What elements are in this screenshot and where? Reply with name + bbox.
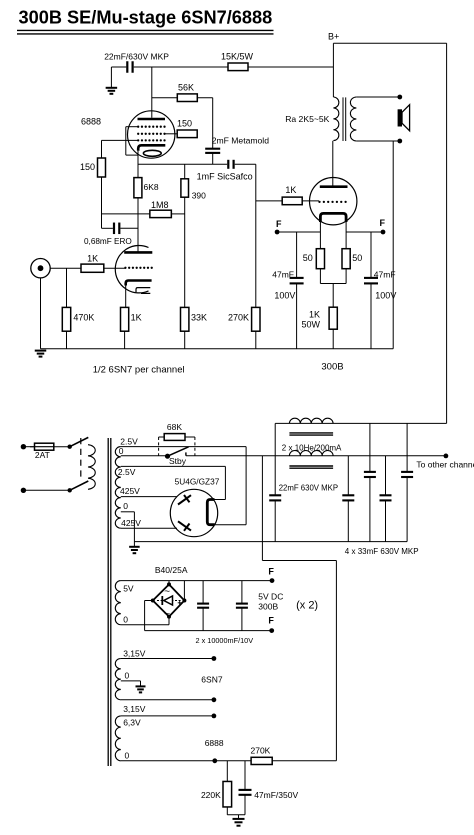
tube 300B envelope (310, 178, 357, 225)
winding 5V (115, 581, 121, 625)
300B plate lead (332, 141, 334, 187)
svg-text:1K: 1K (131, 313, 142, 323)
svg-text:Ra 2K5~5K: Ra 2K5~5K (285, 114, 329, 124)
svg-text:1K: 1K (87, 254, 98, 264)
input jack (31, 259, 50, 278)
OPT primary lead (332, 67, 334, 97)
capacitor 10000mF #1 (202, 581, 204, 604)
svg-text:0: 0 (125, 751, 130, 761)
svg-text:~: ~ (164, 586, 170, 597)
OPT core (342, 97, 344, 141)
capacitor 0,68mF ERO (102, 227, 113, 229)
filament resistor join (319, 269, 321, 284)
svg-text:2.5V: 2.5V (118, 467, 136, 477)
6888 grid g2 dots (137, 133, 139, 135)
main DC line (186, 455, 446, 457)
wire 390 to 33K (184, 197, 186, 307)
ground symbol (rail) (35, 350, 47, 352)
bridge diode glyph (157, 600, 181, 602)
svg-text:470K: 470K (73, 313, 94, 323)
bridge plus mark (178, 602, 182, 604)
svg-text:6888: 6888 (205, 738, 224, 748)
capacitor 10000mF #2 (241, 581, 243, 604)
6888 heater (143, 150, 161, 156)
5U4G filament bottom lead (215, 524, 247, 526)
svg-text:B40/25A: B40/25A (155, 565, 188, 575)
B+ top wire (333, 42, 446, 44)
capacitor 22mF MKP (psu) (274, 456, 276, 496)
resistor 150 (grid) (98, 158, 106, 177)
svg-text:100V: 100V (274, 290, 295, 300)
mains terminal bottom (21, 488, 26, 493)
svg-text:150: 150 (80, 162, 95, 172)
svg-text:47mF: 47mF (272, 270, 294, 280)
svg-text:0: 0 (125, 671, 130, 681)
svg-text:300B SE/Mu-stage 6SN7/6888: 300B SE/Mu-stage 6SN7/6888 (19, 8, 273, 28)
svg-text:220K: 220K (201, 790, 221, 800)
resistor 6K8 (134, 178, 142, 198)
resistor 1K (input) (81, 264, 104, 272)
6888 cathode wire (137, 151, 139, 178)
resistor 1K (300B grid) (282, 197, 302, 205)
title double underline (17, 29, 274, 31)
svg-text:1K: 1K (309, 310, 320, 320)
capacitor 2mF Metamold (205, 148, 220, 150)
capacitor 22mF/630V MKP (111, 66, 126, 68)
wire g1 to 1M8 (102, 213, 150, 215)
resistor 33K (181, 307, 189, 331)
svg-text:2.5V: 2.5V (120, 436, 138, 446)
mains terminal top (21, 444, 26, 449)
capacitor 47mF/350V (244, 761, 246, 790)
svg-text:2AT: 2AT (35, 450, 50, 460)
6888 g2 lead (165, 133, 178, 135)
tube 5U4G envelope (170, 489, 217, 536)
svg-text:56K: 56K (178, 83, 194, 93)
svg-text:2 x 10He/200mA: 2 x 10He/200mA (282, 444, 342, 453)
choke output line (275, 422, 446, 424)
output line wire (138, 163, 227, 165)
node plate junction wire (151, 67, 153, 118)
5V rail (121, 580, 272, 582)
svg-text:3,15V: 3,15V (123, 649, 146, 659)
svg-text:F: F (268, 615, 274, 625)
B+ riser (332, 43, 334, 67)
6888 plate (138, 118, 166, 121)
screen node wire (212, 98, 214, 149)
6SN7 cathode (126, 281, 152, 286)
capacitor 33mF #2 (upper) (369, 423, 371, 472)
5U4G filament (207, 500, 214, 525)
winding 6.3V (115, 716, 120, 761)
wire B+ top line (134, 66, 334, 68)
svg-text:1mF SicSafco: 1mF SicSafco (197, 171, 253, 181)
6888 g3-cathode tie (126, 126, 138, 128)
wire 1K to grid (104, 267, 126, 269)
resistor 1M8 (150, 210, 172, 217)
5U4G anode bottom (178, 521, 191, 530)
resistor 56K (152, 97, 213, 99)
svg-text:15K/5W: 15K/5W (221, 51, 254, 61)
6SN7 plate (124, 251, 152, 254)
svg-text:300B: 300B (258, 601, 278, 611)
6888 cathode (138, 145, 165, 151)
svg-text:0: 0 (123, 615, 128, 625)
svg-text:1/2 6SN7 per channel: 1/2 6SN7 per channel (93, 365, 185, 376)
6SN7 plate lead (137, 228, 139, 252)
ground symbol (bias) (238, 815, 240, 819)
svg-text:F: F (268, 567, 274, 577)
bridge bottom lead (168, 617, 170, 625)
svg-text:F: F (276, 219, 282, 229)
5V DC bottom rail (145, 630, 272, 632)
svg-text:22mF 630V MKP: 22mF 630V MKP (279, 484, 338, 493)
svg-text:0: 0 (123, 501, 128, 511)
resistor 50 (left) (316, 249, 324, 269)
svg-text:6888: 6888 (81, 117, 101, 127)
svg-text:Stby: Stby (169, 456, 187, 466)
transformer core (107, 438, 109, 766)
svg-text:5V DC: 5V DC (258, 591, 283, 601)
resistor 390 (184, 164, 186, 179)
svg-text:22mF/630V MKP: 22mF/630V MKP (104, 51, 169, 61)
resistor 470K (66, 268, 68, 307)
OPT secondary bottom lead (356, 140, 399, 142)
wire 1K to grid 300B (302, 200, 319, 202)
capacitor 47mF 100V left (296, 232, 298, 278)
bridge right lead (183, 581, 185, 601)
fuse 2AT (30, 446, 70, 448)
svg-text:425V: 425V (120, 486, 140, 496)
capacitor 33mF #4 (upper) (406, 423, 408, 472)
right rail (446, 43, 448, 423)
ground rail (41, 348, 394, 350)
svg-text:4 x 33mF 630V MKP: 4 x 33mF 630V MKP (345, 547, 419, 556)
wire 6K8 to 6SN7 plate (137, 198, 139, 252)
svg-text:150: 150 (177, 119, 192, 129)
choke 1 (289, 418, 333, 423)
svg-text:270K: 270K (251, 746, 271, 756)
resistor 270K (255, 164, 257, 307)
svg-text:3,15V: 3,15V (123, 704, 146, 714)
bias network join (227, 814, 245, 816)
svg-text:300B: 300B (321, 361, 343, 372)
6888 grid g3 dots (137, 126, 139, 128)
svg-text:47mF/350V: 47mF/350V (254, 790, 298, 800)
ground (22mF cap) (110, 67, 112, 87)
wire to 300B grid (256, 200, 282, 202)
5U4G filament top lead (215, 499, 226, 501)
300B filament (320, 213, 346, 222)
g1 node wire (101, 177, 103, 228)
resistor 1K (cathode) (125, 286, 127, 308)
svg-text:6K8: 6K8 (144, 182, 159, 192)
capacitor 1mF SicSafco (227, 160, 229, 169)
svg-text:2 x 10000mF/10V: 2 x 10000mF/10V (196, 636, 254, 645)
svg-text:0,68mF ERO: 0,68mF ERO (84, 237, 132, 246)
jack ground wire (40, 278, 42, 349)
psu ground line (134, 541, 407, 543)
6888 g1 lead (102, 139, 138, 141)
input wire (50, 267, 81, 269)
svg-text:0: 0 (119, 446, 124, 456)
OPT secondary top lead (356, 96, 399, 98)
capacitor 33mF #3 (385, 456, 387, 496)
g1 wire down (101, 140, 103, 158)
tube 6SN7 envelope (half) (115, 246, 148, 293)
6SN7 heater mark (136, 288, 150, 294)
svg-text:50: 50 (352, 253, 362, 263)
switch pole bottom (68, 488, 72, 492)
choke 1 input wire (274, 423, 276, 455)
capacitor 47mF 100V right (370, 232, 372, 278)
resistor 150 (screen) (177, 130, 197, 138)
winding 2.5V-0-2.5V and 425-0-425 (115, 447, 121, 529)
winding 3.15V heaters (115, 659, 121, 700)
svg-text:To other channel: To other channel (416, 460, 474, 470)
svg-text:33K: 33K (191, 313, 207, 323)
transformer OPT primary (333, 97, 338, 141)
resistor 220K (226, 761, 228, 782)
svg-text:B+: B+ (328, 32, 339, 42)
svg-text:50W: 50W (301, 320, 320, 330)
6888 grid g1 dots (137, 139, 139, 141)
svg-text:390: 390 (192, 191, 206, 201)
resistor 50 (right) (342, 249, 350, 269)
svg-text:47mF: 47mF (374, 270, 396, 280)
switch pole top (68, 445, 72, 449)
ground symbol (HV 0) (133, 542, 135, 547)
speaker return wire (392, 141, 394, 349)
resistor 15K/5W (228, 63, 248, 71)
svg-text:50: 50 (303, 253, 313, 263)
svg-text:6SN7: 6SN7 (201, 675, 223, 685)
svg-text:1M8: 1M8 (151, 200, 169, 210)
svg-text:68K: 68K (167, 422, 182, 432)
switch link dashed (80, 438, 82, 481)
bias rail wire (261, 456, 263, 561)
svg-text:5U4G/GZ37: 5U4G/GZ37 (175, 476, 220, 486)
svg-text:(x 2): (x 2) (296, 600, 318, 612)
svg-text:5V: 5V (123, 583, 134, 593)
5U4G anode top (178, 495, 191, 504)
bridge top lead (168, 581, 170, 585)
tube 6888 envelope (128, 111, 175, 158)
svg-text:6,3V: 6,3V (123, 718, 141, 728)
svg-text:425V: 425V (121, 518, 141, 528)
6SN7 grid dots (124, 267, 126, 269)
bridge left lead (145, 600, 153, 602)
transformer OPT secondary (350, 97, 356, 141)
svg-text:270K: 270K (228, 313, 249, 323)
transformer primary (88, 445, 95, 490)
300B grid dots (318, 201, 320, 203)
300B plate (320, 185, 348, 188)
svg-text:F: F (380, 218, 386, 228)
speaker (398, 109, 402, 126)
resistor 1K 50W (329, 307, 337, 329)
svg-text:1K: 1K (285, 185, 296, 195)
300B filament legs (319, 222, 321, 249)
svg-text:2mF Metamold: 2mF Metamold (212, 136, 270, 146)
capacitor 33mF #1 (347, 456, 349, 496)
choke 2 (289, 451, 333, 456)
